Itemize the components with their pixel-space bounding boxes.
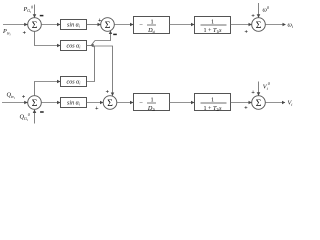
svg-text:−: −	[139, 22, 143, 29]
svg-text:+: +	[251, 89, 255, 96]
wire: lag to S3	[231, 24, 252, 26]
wire: w0 drop into S3	[258, 3, 260, 17]
svg-text:sin αi: sin αi	[67, 101, 80, 107]
sign - at S1b bottom	[40, 111, 44, 113]
svg-text:Σ: Σ	[256, 98, 262, 109]
wire: sin to S2	[87, 24, 101, 26]
fraction -1/Dsi	[139, 19, 156, 34]
wire: S1 branch down to cos block	[35, 31, 61, 45]
summing junction S2b	[103, 96, 117, 110]
wire: diagonal down to riser	[91, 45, 95, 48]
block -1/Dsi	[134, 17, 170, 34]
wire: Qg0 stub into S1b bottom	[34, 110, 36, 124]
svg-text:Σ: Σ	[32, 20, 38, 31]
wire: D2i to lag2	[170, 102, 195, 104]
svg-text:+: +	[23, 29, 27, 36]
svg-text:Σ: Σ	[105, 20, 111, 31]
wire: P input to S1	[3, 24, 27, 26]
svg-text:Qtvi: Qtvi	[7, 92, 15, 100]
summing junction S1b	[28, 96, 42, 110]
summing junction S3	[252, 18, 266, 32]
svg-text:+: +	[251, 12, 255, 19]
svg-text:D2i: D2i	[147, 105, 155, 112]
fraction 1/(1+T1i s)	[201, 19, 227, 34]
svg-text:Dsi: Dsi	[147, 27, 155, 34]
svg-text:sin αi: sin αi	[67, 23, 80, 29]
wire: S1 to sin block	[41, 24, 60, 26]
wire: V0 drop into S3b	[258, 82, 260, 96]
wire: diagonal up to rail	[91, 41, 95, 46]
junction arrowhead	[90, 44, 93, 47]
wire: sin bottom to S2b	[87, 102, 104, 104]
svg-text:Σ: Σ	[32, 98, 38, 109]
svg-text:Ptvi: Ptvi	[2, 28, 11, 36]
block sin a_i (top)	[61, 20, 87, 30]
wire: S1b branch up to cos lower	[35, 82, 61, 96]
wire: S3b output V_i	[265, 102, 285, 104]
summing junction S3b	[252, 96, 266, 110]
wire: Dsi to lag block	[170, 24, 195, 26]
block cos a_i (lower)	[61, 77, 87, 87]
wire: Q input to S1b	[2, 102, 27, 104]
svg-text:+: +	[22, 93, 26, 100]
wire: lag2 to S3b	[231, 102, 252, 104]
wire: S2 to block D_si	[114, 24, 133, 26]
svg-text:+: +	[98, 17, 102, 24]
svg-text:Vi: Vi	[288, 99, 293, 106]
svg-text:QGi0: QGi0	[20, 112, 30, 122]
wire: lower rail down into S2b top	[95, 46, 113, 96]
sign - at S2 bottom	[113, 33, 117, 35]
sigma glyphs	[32, 20, 262, 109]
wire: S3 output w_i	[265, 24, 285, 26]
svg-text:+: +	[244, 29, 248, 36]
sign - at S1 top	[40, 15, 44, 17]
svg-text:1 + T2is: 1 + T2is	[203, 106, 222, 112]
wire: cos upper output stub	[87, 45, 92, 47]
svg-text:+: +	[244, 105, 248, 112]
svg-text:+: +	[106, 89, 110, 96]
svg-text:+: +	[95, 105, 99, 112]
summing junction S2	[101, 18, 115, 32]
svg-text:1: 1	[150, 97, 153, 104]
block cos a_i (upper)	[61, 41, 87, 51]
fraction -1/D2i	[139, 97, 156, 112]
svg-text:Vi0: Vi0	[263, 81, 270, 91]
svg-text:Σ: Σ	[256, 20, 262, 31]
summing junction S1	[28, 18, 42, 32]
block -1/D2i	[134, 94, 170, 111]
wire: S2b to block D2i	[117, 102, 133, 104]
wire: riser down to cos lower output	[87, 46, 95, 82]
signs	[22, 12, 256, 112]
svg-text:Σ: Σ	[107, 98, 113, 109]
svg-text:ωi: ωi	[288, 22, 294, 29]
svg-text:−: −	[139, 100, 143, 107]
svg-text:PGi0: PGi0	[23, 4, 34, 14]
svg-text:1: 1	[211, 97, 214, 104]
svg-text:cos αi: cos αi	[67, 80, 81, 86]
fraction 1/(1+T2i s)	[201, 97, 227, 112]
wire: Pg0 drop into S1 top	[34, 5, 36, 18]
block texts	[67, 23, 81, 107]
svg-text:1 + T1is: 1 + T1is	[203, 28, 222, 34]
svg-text:cos αi: cos αi	[67, 44, 81, 50]
wire: S1b to sin bottom	[41, 102, 60, 104]
variable labels	[2, 4, 293, 122]
block sin a_i (bottom)	[61, 98, 87, 108]
block 1/(1+T1i s)	[195, 17, 231, 34]
svg-text:ω0: ω0	[263, 5, 269, 13]
wire: upper rail to S2 bottom	[95, 31, 111, 41]
block 1/(1+T2i s)	[195, 94, 231, 111]
